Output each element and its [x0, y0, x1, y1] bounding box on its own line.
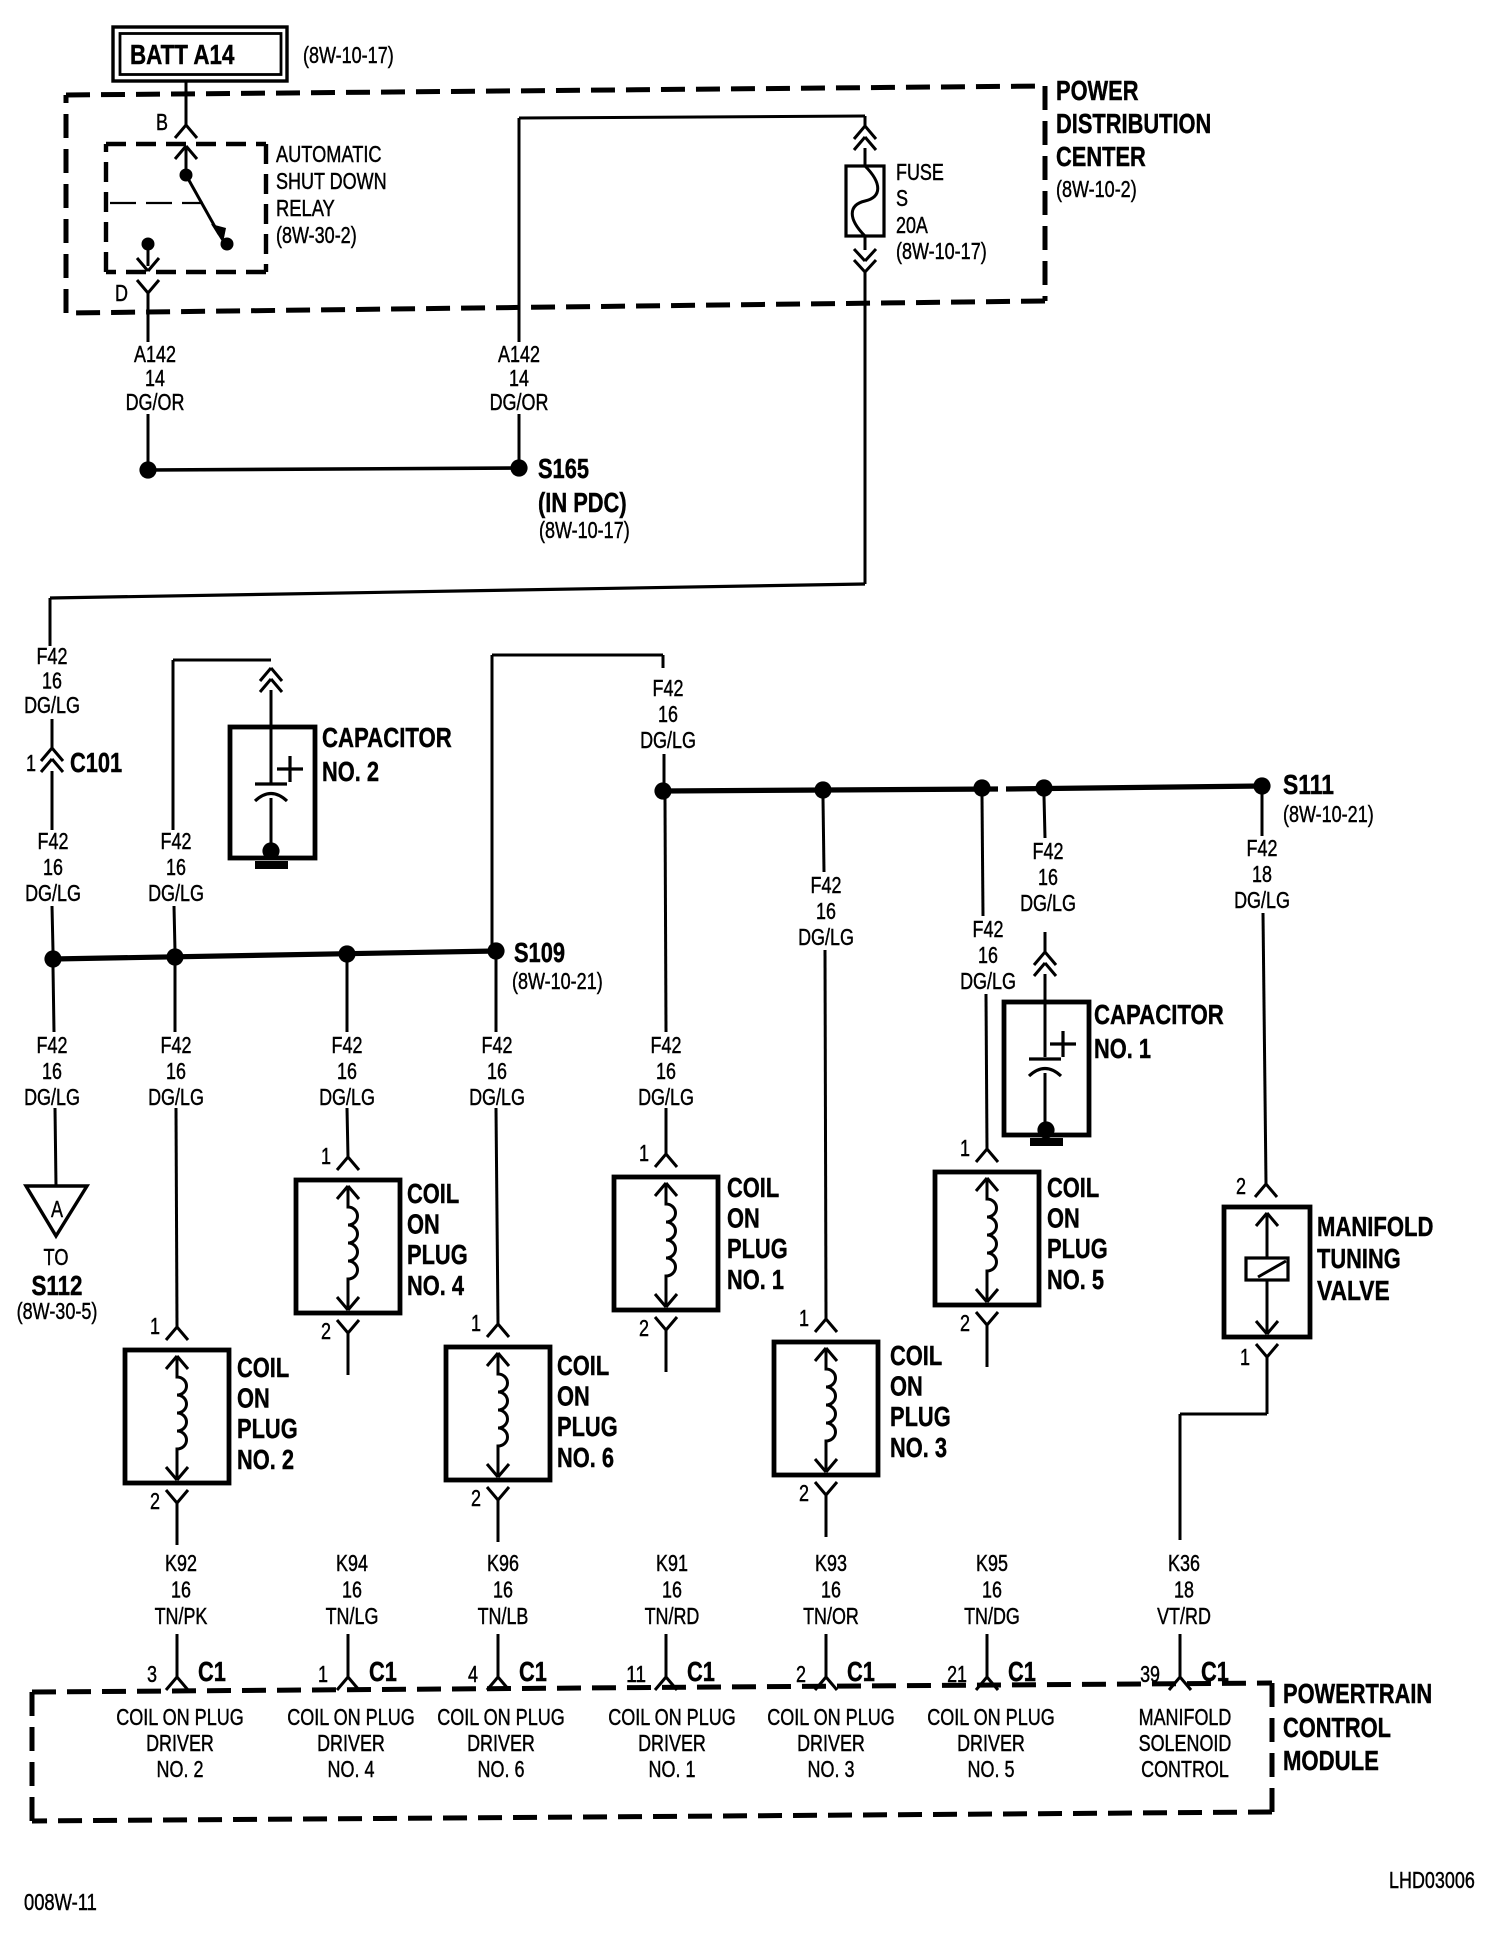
svg-text:K91: K91 — [656, 1550, 688, 1576]
powertrain control module dashed boundary — [32, 1683, 1272, 1821]
connector pin 2 of coil on plug no. 5 — [960, 1310, 998, 1367]
svg-text:18: 18 — [1174, 1577, 1194, 1603]
wire col5 to coil no.5 — [986, 994, 987, 1149]
connector pin 1 of coil on plug no. 1 — [639, 1140, 677, 1167]
wire col2 into S109 — [174, 906, 175, 951]
wire label F42 16 DG/LG col1 — [638, 1032, 694, 1110]
splice S111 bus — [663, 786, 1262, 791]
wire label K92 16 TN/PK — [155, 1550, 208, 1629]
svg-text:F42: F42 — [653, 675, 684, 701]
svg-text:NO. 5: NO. 5 — [968, 1756, 1015, 1782]
svg-text:DG/LG: DG/LG — [798, 924, 854, 950]
battery feed label box "BATT A14" — [113, 27, 287, 81]
svg-text:F42: F42 — [973, 916, 1004, 942]
svg-text:ON: ON — [1047, 1203, 1080, 1234]
connector C1 pin 2 at PCM — [796, 1656, 875, 1690]
svg-text:C1: C1 — [847, 1656, 875, 1687]
ground under capacitor no.1 — [1030, 1138, 1063, 1146]
svg-text:S: S — [896, 185, 908, 211]
svg-text:PLUG: PLUG — [407, 1239, 468, 1270]
wire label F42 18 DG/LG — [1234, 835, 1290, 913]
svg-text:K92: K92 — [165, 1550, 197, 1576]
svg-text:S111: S111 — [1283, 769, 1334, 800]
pcm function label NO. 5 — [927, 1704, 1055, 1782]
fuse output connector chevrons — [854, 236, 876, 272]
splice S111 end junction — [1253, 777, 1270, 794]
junction dot col coil1 — [654, 782, 671, 799]
wire label K93 16 TN/OR — [803, 1550, 859, 1629]
svg-text:DG/LG: DG/LG — [469, 1084, 525, 1110]
svg-text:C1: C1 — [369, 1656, 397, 1687]
svg-text:16: 16 — [337, 1058, 357, 1084]
svg-text:1: 1 — [318, 1661, 328, 1687]
svg-text:K94: K94 — [336, 1550, 368, 1576]
connector pin 2 of coil on plug no. 6 — [471, 1485, 509, 1542]
svg-text:16: 16 — [656, 1058, 676, 1084]
sheet number 008W-11 — [24, 1889, 97, 1915]
svg-text:NO. 1: NO. 1 — [649, 1756, 696, 1782]
automatic shut down relay dashed box — [106, 144, 266, 272]
svg-text:DG/OR: DG/OR — [126, 389, 185, 415]
svg-text:COIL ON PLUG: COIL ON PLUG — [437, 1704, 565, 1730]
svg-text:F42: F42 — [38, 828, 69, 854]
connector pin 1 of coil on plug no. 6 — [471, 1310, 509, 1337]
wire label K96 16 TN/LB — [478, 1550, 529, 1629]
svg-text:COIL ON PLUG: COIL ON PLUG — [927, 1704, 1055, 1730]
svg-text:DG/LG: DG/LG — [1020, 890, 1076, 916]
connector pin 2 of coil on plug no. 4 — [321, 1318, 359, 1375]
wire label K95 16 TN/DG — [964, 1550, 1020, 1629]
svg-text:TN/RD: TN/RD — [645, 1603, 700, 1629]
svg-text:F42: F42 — [37, 643, 68, 669]
junction dot col coil2 — [166, 948, 183, 965]
in-line connector chevrons above capacitor no.2 — [260, 668, 282, 727]
junction dot colA — [44, 950, 61, 967]
connector pin 1 of coil on plug no. 5 — [960, 1135, 998, 1162]
svg-text:DG/LG: DG/LG — [1234, 887, 1290, 913]
svg-text:2: 2 — [471, 1485, 481, 1511]
wire below C101 — [51, 771, 54, 830]
label MANIFOLD TUNING VALVE — [1317, 1211, 1434, 1306]
svg-text:F42: F42 — [1033, 838, 1064, 864]
svg-text:BATT A14: BATT A14 — [130, 39, 235, 70]
svg-text:F42: F42 — [1247, 835, 1278, 861]
svg-text:ON: ON — [890, 1371, 923, 1402]
wire K92 into PCM — [176, 1634, 179, 1677]
label POWER DISTRIBUTION CENTER (8W-10-2) — [1056, 75, 1211, 202]
svg-text:DG/LG: DG/LG — [24, 692, 80, 718]
wire label F42 16 DG/LG (below C101) — [25, 828, 81, 906]
svg-text:F42: F42 — [811, 872, 842, 898]
svg-text:1: 1 — [799, 1305, 809, 1331]
junction dot col coil4 — [338, 945, 355, 962]
wire label F42 16 DG/LG col4 — [319, 1032, 375, 1110]
fuse S 20A element — [846, 166, 884, 236]
connector C1 pin 39 at PCM — [1140, 1656, 1229, 1690]
wire label F42 16 DG/LG cap1 — [1020, 838, 1076, 916]
connector pin 1 of coil on plug no. 4 — [321, 1143, 359, 1170]
svg-text:COIL: COIL — [890, 1340, 942, 1371]
svg-text:2: 2 — [799, 1480, 809, 1506]
svg-text:NO. 6: NO. 6 — [557, 1442, 614, 1473]
wire A142 from relay D — [147, 293, 150, 342]
splice junction left — [139, 461, 156, 478]
wire into S111 first junction — [663, 754, 666, 783]
svg-text:RELAY: RELAY — [276, 195, 335, 221]
svg-text:F42: F42 — [332, 1032, 363, 1058]
wire to connector C101 — [51, 719, 54, 748]
svg-text:NO. 6: NO. 6 — [478, 1756, 525, 1782]
svg-text:16: 16 — [171, 1577, 191, 1603]
svg-text:NO. 3: NO. 3 — [808, 1756, 855, 1782]
svg-text:20A: 20A — [896, 212, 928, 238]
svg-text:1: 1 — [1240, 1344, 1250, 1370]
svg-text:NO. 2: NO. 2 — [157, 1756, 204, 1782]
label S111 (8W-10-21) — [1283, 769, 1374, 827]
svg-text:SHUT DOWN: SHUT DOWN — [276, 168, 387, 194]
wire from capacitor no.2 to col2 — [173, 660, 271, 830]
svg-text:COIL: COIL — [727, 1172, 779, 1203]
svg-text:DG/LG: DG/LG — [25, 880, 81, 906]
pcm function label NO. 6 — [437, 1704, 565, 1782]
pcm function label manifold solenoid control — [1139, 1704, 1232, 1782]
svg-text:CENTER: CENTER — [1056, 141, 1146, 172]
svg-text:NO. 3: NO. 3 — [890, 1432, 947, 1463]
power distribution center dashed boundary — [66, 86, 1045, 313]
svg-text:B: B — [156, 109, 168, 135]
off-page reference triangle A — [26, 1186, 87, 1236]
svg-text:16: 16 — [821, 1577, 841, 1603]
svg-text:S112: S112 — [32, 1270, 83, 1301]
svg-text:MANIFOLD: MANIFOLD — [1139, 1704, 1232, 1730]
svg-text:PLUG: PLUG — [1047, 1233, 1108, 1264]
svg-text:K36: K36 — [1168, 1550, 1200, 1576]
svg-text:K96: K96 — [487, 1550, 519, 1576]
wire label F42 16 DG/LG col3 — [798, 872, 854, 950]
svg-text:(IN PDC): (IN PDC) — [538, 487, 627, 518]
svg-text:008W-11: 008W-11 — [24, 1889, 97, 1915]
svg-text:ON: ON — [727, 1203, 760, 1234]
svg-text:DG/LG: DG/LG — [638, 1084, 694, 1110]
svg-text:PLUG: PLUG — [727, 1233, 788, 1264]
wire K36 into PCM — [1179, 1634, 1182, 1677]
svg-text:(8W-10-17): (8W-10-17) — [303, 42, 394, 68]
wire F42 down from fuse — [864, 272, 867, 584]
wire label F42 16 DG/LG colA — [24, 1032, 80, 1110]
ignition coil "COIL ON PLUG NO. 5" — [935, 1172, 1108, 1305]
wire label K91 16 TN/RD — [645, 1550, 700, 1629]
svg-text:PLUG: PLUG — [237, 1413, 298, 1444]
wire col3 below S111 — [823, 798, 824, 872]
svg-text:K93: K93 — [815, 1550, 847, 1576]
svg-text:COIL: COIL — [557, 1350, 609, 1381]
wire label F42 16 DG/LG (top left) — [24, 643, 80, 718]
wire label F42 16 DG/LG col2 — [148, 1032, 204, 1110]
svg-text:16: 16 — [978, 942, 998, 968]
connector pin 1 of manifold tuning valve — [1240, 1344, 1278, 1370]
splice S109 bus — [53, 951, 496, 959]
svg-text:COIL: COIL — [1047, 1172, 1099, 1203]
fuse input connector chevrons — [854, 116, 876, 166]
connector pin 2 of coil on plug no. 3 — [799, 1480, 837, 1537]
svg-text:C1: C1 — [687, 1656, 715, 1687]
wire col6 below S109 — [495, 959, 498, 1032]
svg-text:2: 2 — [1236, 1173, 1246, 1199]
wire col2 to coil no.2 — [176, 1108, 177, 1327]
svg-text:(8W-10-17): (8W-10-17) — [896, 238, 987, 264]
wire K91 into PCM — [665, 1634, 668, 1677]
label S165 (IN PDC) (8W-10-17) — [538, 453, 630, 543]
ignition coil "COIL ON PLUG NO. 2" — [125, 1350, 298, 1483]
wire colA to off-page triangle — [55, 1108, 56, 1186]
wire col2 below S109 — [174, 965, 177, 1032]
wire label F42 16 DG/LG (above S111) — [640, 675, 696, 753]
wire K95 into PCM — [986, 1634, 989, 1677]
svg-text:DG/LG: DG/LG — [960, 968, 1016, 994]
svg-text:F42: F42 — [651, 1032, 682, 1058]
wire F42 across to left — [50, 584, 865, 646]
svg-text:POWER: POWER — [1056, 75, 1139, 106]
wire cap1 below S111 — [1044, 796, 1045, 838]
svg-text:DISTRIBUTION: DISTRIBUTION — [1056, 108, 1211, 139]
svg-text:NO. 1: NO. 1 — [1094, 1033, 1151, 1064]
svg-text:16: 16 — [658, 701, 678, 727]
wire label F42 16 DG/LG col6 — [469, 1032, 525, 1110]
svg-text:NO. 4: NO. 4 — [407, 1270, 464, 1301]
wire up and across to fuse — [519, 116, 865, 342]
svg-text:2: 2 — [321, 1318, 331, 1344]
label POWERTRAIN CONTROL MODULE — [1283, 1678, 1432, 1776]
svg-text:PLUG: PLUG — [890, 1401, 951, 1432]
svg-text:DG/LG: DG/LG — [148, 880, 204, 906]
connector pin 2 of manifold tuning valve — [1236, 1173, 1277, 1199]
svg-text:ON: ON — [407, 1209, 440, 1240]
svg-text:A: A — [51, 1196, 64, 1222]
svg-text:CONTROL: CONTROL — [1283, 1712, 1391, 1743]
wire from S109 up and across to S111 — [492, 655, 663, 951]
svg-text:14: 14 — [509, 365, 529, 391]
svg-text:TN/PK: TN/PK — [155, 1603, 208, 1629]
ground under capacitor no.2 — [255, 861, 288, 869]
svg-text:18: 18 — [1252, 861, 1272, 887]
svg-text:A142: A142 — [498, 341, 540, 367]
svg-text:FUSE: FUSE — [896, 159, 944, 185]
connector C1 pin 4 at PCM — [468, 1656, 547, 1690]
ignition coil "COIL ON PLUG NO. 4" — [296, 1178, 468, 1313]
wire to splice S165 — [147, 414, 150, 462]
relay movable arm with arrowhead — [186, 175, 234, 251]
svg-text:16: 16 — [166, 854, 186, 880]
svg-text:16: 16 — [487, 1058, 507, 1084]
svg-text:DRIVER: DRIVER — [797, 1730, 865, 1756]
svg-text:3: 3 — [147, 1661, 157, 1687]
capacitor no.2 — [230, 727, 315, 860]
connector C101 pin 1 — [26, 747, 122, 778]
junction dot col capacitor no.1 — [1035, 779, 1052, 796]
svg-text:COIL ON PLUG: COIL ON PLUG — [287, 1704, 415, 1730]
connector pin 2 of coil on plug no. 1 — [639, 1315, 677, 1372]
wire into splice S109 — [52, 906, 53, 951]
wire col6 to coil no.6 — [496, 1108, 498, 1324]
svg-text:4: 4 — [468, 1661, 478, 1687]
label TO S112 (8W-30-5) — [17, 1244, 98, 1324]
svg-text:16: 16 — [342, 1577, 362, 1603]
svg-text:16: 16 — [816, 898, 836, 924]
svg-text:S165: S165 — [538, 453, 589, 484]
svg-text:SOLENOID: SOLENOID — [1139, 1730, 1232, 1756]
svg-text:(8W-10-21): (8W-10-21) — [512, 968, 603, 994]
wire col1 below S111 — [665, 799, 666, 1032]
svg-text:F42: F42 — [161, 828, 192, 854]
svg-text:(8W-30-2): (8W-30-2) — [276, 222, 357, 248]
wire label F42 16 DG/LG col5 — [960, 916, 1016, 994]
svg-text:CAPACITOR: CAPACITOR — [1094, 999, 1224, 1030]
svg-text:DRIVER: DRIVER — [317, 1730, 385, 1756]
svg-text:2: 2 — [639, 1315, 649, 1341]
drawing id LHD03006 — [1389, 1867, 1475, 1893]
svg-text:TN/OR: TN/OR — [803, 1603, 859, 1629]
connector C1 pin 11 at PCM — [626, 1656, 715, 1690]
svg-text:16: 16 — [166, 1058, 186, 1084]
svg-text:AUTOMATIC: AUTOMATIC — [276, 141, 382, 167]
junction dot col coil5 — [973, 779, 990, 796]
wire label K36 18 VT/RD — [1157, 1550, 1211, 1629]
svg-text:1: 1 — [471, 1310, 481, 1336]
svg-text:(8W-10-2): (8W-10-2) — [1056, 176, 1137, 202]
ignition coil "COIL ON PLUG NO. 6" — [446, 1347, 618, 1480]
relay output contact to pin D — [137, 238, 159, 272]
junction dot col coil3 — [814, 781, 831, 798]
connector pin 1 of coil on plug no. 3 — [799, 1305, 837, 1332]
svg-text:COIL: COIL — [237, 1352, 289, 1383]
svg-text:F42: F42 — [161, 1032, 192, 1058]
relay internal contact from pin B — [175, 146, 197, 182]
wire from BATT A14 into PDC — [185, 81, 188, 125]
svg-text:PLUG: PLUG — [557, 1411, 618, 1442]
svg-text:NO. 4: NO. 4 — [328, 1756, 375, 1782]
wire K94 into PCM — [347, 1634, 350, 1677]
splice S165 junction — [510, 459, 527, 476]
svg-text:1: 1 — [26, 750, 36, 776]
svg-text:16: 16 — [1038, 864, 1058, 890]
svg-text:S109: S109 — [514, 937, 565, 968]
wire K36 from valve jog left — [1180, 1357, 1267, 1540]
connector C1 pin 21 at PCM — [947, 1656, 1036, 1690]
capacitor no.1 — [1004, 1002, 1089, 1139]
wire col3 to coil no.3 — [825, 950, 826, 1319]
label AUTOMATIC SHUT DOWN RELAY (8W-30-2) — [276, 141, 387, 248]
svg-text:C1: C1 — [198, 1656, 226, 1687]
connector C1 pin 3 at PCM — [147, 1656, 226, 1690]
svg-text:DG/LG: DG/LG — [24, 1084, 80, 1110]
svg-text:CONTROL: CONTROL — [1141, 1756, 1229, 1782]
wire col4 below S109 — [346, 962, 349, 1032]
svg-text:ON: ON — [557, 1381, 590, 1412]
svg-text:VALVE: VALVE — [1317, 1275, 1390, 1306]
wire label F42 16 DG/LG (col2 upper) — [148, 828, 204, 906]
junction dot col coil6 / S109 — [487, 942, 504, 959]
svg-text:2: 2 — [150, 1488, 160, 1514]
svg-text:COIL ON PLUG: COIL ON PLUG — [116, 1704, 244, 1730]
svg-text:16: 16 — [493, 1577, 513, 1603]
svg-text:TO: TO — [44, 1244, 69, 1270]
svg-text:D: D — [115, 280, 128, 306]
svg-text:POWERTRAIN: POWERTRAIN — [1283, 1678, 1432, 1709]
pcm function label NO. 3 — [767, 1704, 895, 1782]
label CAPACITOR NO. 1 — [1094, 999, 1224, 1064]
svg-text:DRIVER: DRIVER — [146, 1730, 214, 1756]
relay actuator dashed link — [110, 202, 203, 204]
svg-text:1: 1 — [150, 1313, 160, 1339]
svg-text:DRIVER: DRIVER — [638, 1730, 706, 1756]
svg-text:C101: C101 — [70, 747, 122, 778]
wire to manifold tuning valve — [1263, 913, 1266, 1184]
reference "(8W-10-17)" for BATT A14 — [303, 42, 394, 68]
svg-text:16: 16 — [43, 854, 63, 880]
svg-text:11: 11 — [626, 1661, 646, 1687]
svg-text:16: 16 — [42, 668, 62, 694]
svg-text:MANIFOLD: MANIFOLD — [1317, 1211, 1434, 1242]
connector pin 2 of coil on plug no. 2 — [150, 1488, 188, 1545]
svg-text:ON: ON — [237, 1383, 270, 1414]
svg-text:TUNING: TUNING — [1317, 1243, 1401, 1274]
svg-text:DRIVER: DRIVER — [467, 1730, 535, 1756]
label FUSE S 20A (8W-10-17) — [896, 159, 987, 264]
svg-text:TN/DG: TN/DG — [964, 1603, 1020, 1629]
svg-text:DG/OR: DG/OR — [490, 389, 549, 415]
svg-text:DRIVER: DRIVER — [957, 1730, 1025, 1756]
pcm function label NO. 2 — [116, 1704, 244, 1782]
svg-text:16: 16 — [982, 1577, 1002, 1603]
pcm function label NO. 1 — [608, 1704, 736, 1782]
wire col4 to coil no.4 — [347, 1108, 348, 1157]
wire colA below S109 — [53, 967, 54, 1032]
wire K96 into PCM — [497, 1634, 500, 1677]
wire col1 to coil no.1 — [665, 1108, 668, 1154]
svg-text:16: 16 — [42, 1058, 62, 1084]
svg-text:NO. 1: NO. 1 — [727, 1264, 784, 1295]
svg-text:1: 1 — [321, 1143, 331, 1169]
wire col5 below S111 — [982, 796, 983, 916]
svg-text:LHD03006: LHD03006 — [1389, 1867, 1475, 1893]
svg-text:DG/LG: DG/LG — [640, 727, 696, 753]
svg-text:TN/LG: TN/LG — [326, 1603, 379, 1629]
svg-text:1: 1 — [639, 1140, 649, 1166]
wire from S111 down — [1261, 794, 1264, 836]
in-line connector chevrons above capacitor no.1 — [1034, 932, 1056, 1002]
svg-text:(8W-10-17): (8W-10-17) — [539, 517, 630, 543]
wire label A142 14 DG/OR (left) — [126, 341, 185, 415]
svg-text:COIL: COIL — [407, 1178, 459, 1209]
svg-text:1: 1 — [960, 1135, 970, 1161]
wire A142 from S165 up — [518, 414, 521, 460]
label CAPACITOR NO. 2 — [322, 722, 452, 787]
svg-text:MODULE: MODULE — [1283, 1745, 1379, 1776]
svg-text:F42: F42 — [482, 1032, 513, 1058]
svg-text:16: 16 — [662, 1577, 682, 1603]
svg-text:NO. 5: NO. 5 — [1047, 1264, 1104, 1295]
svg-text:14: 14 — [145, 365, 165, 391]
wire K93 into PCM — [825, 1634, 828, 1677]
svg-text:2: 2 — [796, 1661, 806, 1687]
wire label A142 14 DG/OR (right) — [490, 341, 549, 415]
svg-text:DG/LG: DG/LG — [148, 1084, 204, 1110]
svg-text:VT/RD: VT/RD — [1157, 1603, 1211, 1629]
svg-text:C1: C1 — [519, 1656, 547, 1687]
connector pin 1 of coil on plug no. 2 — [150, 1313, 188, 1340]
ignition coil "COIL ON PLUG NO. 1" — [614, 1172, 788, 1310]
svg-text:CAPACITOR: CAPACITOR — [322, 722, 452, 753]
